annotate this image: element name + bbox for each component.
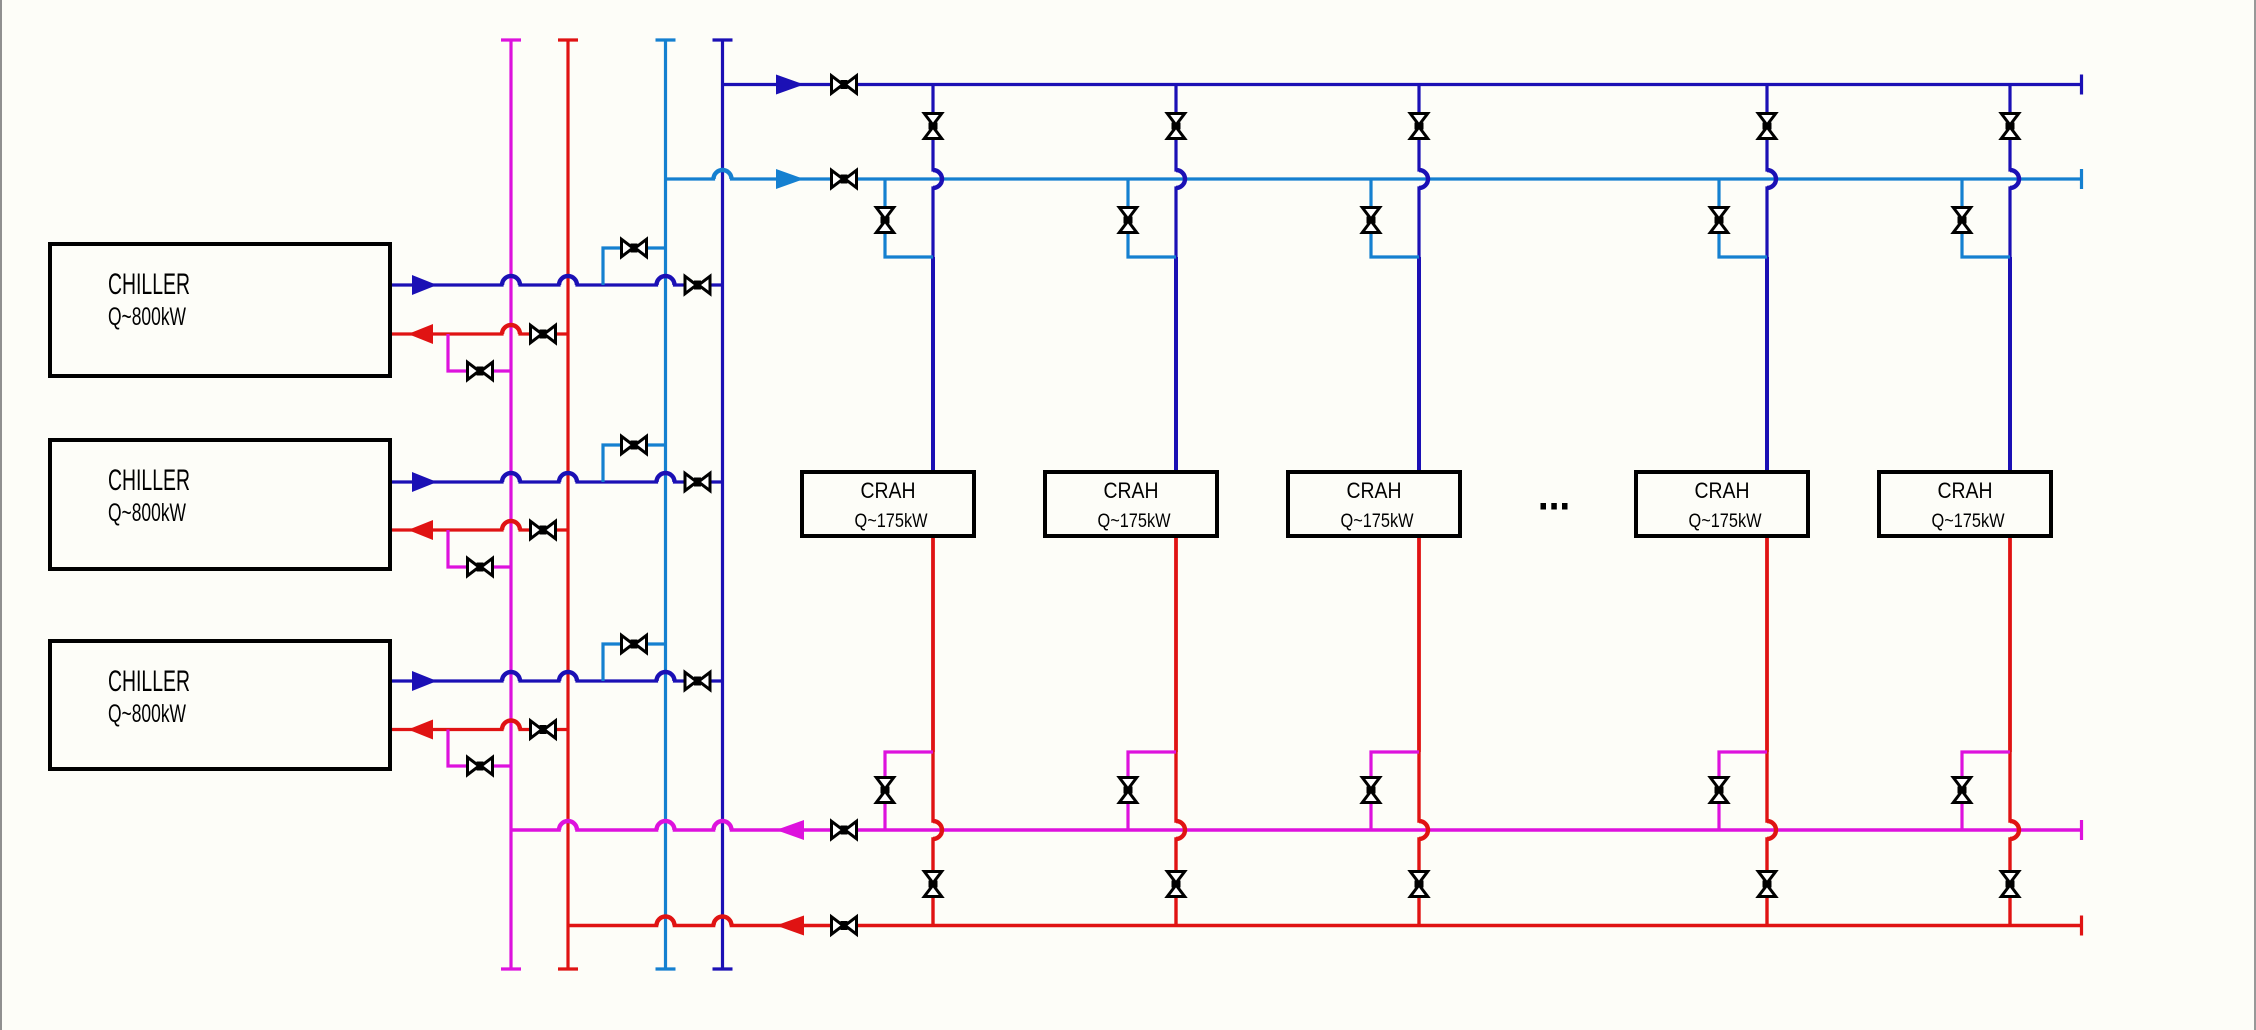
primary return riser (red) <box>566 40 569 969</box>
secondary return riser bottom cap <box>501 967 521 970</box>
chiller 3 label Q~800kW <box>108 700 186 728</box>
CRAH 2 supply drop upper (dark blue) <box>1176 85 1185 258</box>
CRAH 3 supply drop upper (dark blue) <box>1419 85 1428 258</box>
valve on primary return header <box>832 917 857 934</box>
primary supply header end cap <box>2080 75 2083 95</box>
ellipsis (more CRAH units) <box>1541 503 1568 510</box>
valve on primary supply header <box>832 76 857 93</box>
CRAH 5 label CRAH <box>1938 478 1993 503</box>
svg-text:Q~175kW: Q~175kW <box>1098 510 1171 532</box>
flow arrow on primary return header <box>776 916 804 936</box>
CRAH 1 label Q~175kW <box>855 510 928 532</box>
chiller 2 box <box>50 440 390 569</box>
primary return header end cap <box>2080 916 2083 936</box>
valve on chiller 3 crossover supply <box>622 635 647 652</box>
valve on CRAH 3 return drop <box>1410 872 1427 897</box>
CRAH 2 secondary supply branch (light blue) <box>1128 179 1176 257</box>
valve on CRAH 5 return drop <box>2001 872 2018 897</box>
CRAH 5 return drop lower (red) <box>2010 752 2019 926</box>
svg-text:CRAH: CRAH <box>1347 478 1402 503</box>
svg-text:Q~800kW: Q~800kW <box>108 303 186 331</box>
valve on secondary supply header <box>832 170 857 187</box>
CRAH 2 supply drop lower (dark blue) <box>1174 257 1178 470</box>
svg-text:CRAH: CRAH <box>1104 478 1159 503</box>
chiller 1 crossover to secondary supply (light blue) <box>603 248 666 285</box>
svg-text:Q~800kW: Q~800kW <box>108 700 186 728</box>
CRAH 1 label CRAH <box>861 478 916 503</box>
flow arrow on chiller 2 supply <box>412 472 437 492</box>
CRAH 3 secondary supply branch (light blue) <box>1371 179 1419 257</box>
valve on CRAH 4 secondary supply branch <box>1710 208 1727 233</box>
CRAH 1 return drop upper (red) <box>931 538 935 752</box>
CRAH 4 secondary supply branch (light blue) <box>1719 179 1767 257</box>
CRAH 3 return drop lower (red) <box>1419 752 1428 926</box>
primary supply riser bottom cap <box>713 967 733 970</box>
secondary return riser (magenta), top cap <box>501 38 521 41</box>
CRAH 1 secondary return branch (magenta) <box>885 752 933 830</box>
CRAH 3 label CRAH <box>1347 478 1402 503</box>
CRAH 2 return drop lower (red) <box>1176 752 1185 926</box>
valve on CRAH 5 supply drop <box>2001 114 2018 139</box>
flow arrow on chiller 1 return <box>408 324 433 344</box>
chiller 1 box <box>50 244 390 376</box>
CRAH 3 secondary return branch (magenta) <box>1371 752 1419 830</box>
svg-text:CRAH: CRAH <box>861 478 916 503</box>
valve on chiller 2 supply <box>685 473 710 490</box>
secondary return riser (magenta) <box>509 40 512 969</box>
valve on chiller 2 crossover supply <box>622 436 647 453</box>
CRAH 1 return drop lower (red) <box>933 752 942 926</box>
primary supply riser (dark blue), top cap <box>713 38 733 41</box>
valve on secondary return header <box>832 821 857 838</box>
flow arrow on chiller 1 supply <box>412 275 437 295</box>
svg-text:Q~175kW: Q~175kW <box>855 510 928 532</box>
CRAH 5 return drop upper (red) <box>2008 538 2012 752</box>
CRAH 3 label Q~175kW <box>1341 510 1414 532</box>
secondary supply riser (light blue) <box>664 40 667 969</box>
flow arrow on primary supply header <box>776 75 804 95</box>
chiller 2 crossover to secondary return (magenta) <box>448 530 511 567</box>
valve on chiller 1 supply <box>685 276 710 293</box>
CRAH 4 supply drop lower (dark blue) <box>1765 257 1769 470</box>
CRAH 4 label CRAH <box>1695 478 1750 503</box>
svg-text:Q~175kW: Q~175kW <box>1341 510 1414 532</box>
flow arrow on chiller 3 return <box>408 720 433 740</box>
primary supply header (dark blue) <box>723 83 2082 86</box>
valve on chiller 3 return <box>531 721 556 738</box>
secondary supply header end cap <box>2080 169 2083 189</box>
svg-text:CHILLER: CHILLER <box>108 464 190 497</box>
valve on CRAH 1 secondary return branch <box>876 778 893 803</box>
chiller 3 label CHILLER <box>108 665 190 698</box>
svg-text:CRAH: CRAH <box>1695 478 1750 503</box>
svg-text:CRAH: CRAH <box>1938 478 1993 503</box>
CRAH 5 secondary supply branch (light blue) <box>1962 179 2010 257</box>
valve on CRAH 5 secondary supply branch <box>1953 208 1970 233</box>
valve on CRAH 1 return drop <box>924 872 941 897</box>
svg-text:Q~175kW: Q~175kW <box>1932 510 2005 532</box>
valve on CRAH 2 return drop <box>1167 872 1184 897</box>
chiller 1 label Q~800kW <box>108 303 186 331</box>
valve on CRAH 1 supply drop <box>924 114 941 139</box>
CRAH 2 label Q~175kW <box>1098 510 1171 532</box>
CRAH 3 supply drop lower (dark blue) <box>1417 257 1421 470</box>
svg-text:CHILLER: CHILLER <box>108 665 190 698</box>
CRAH 1 supply drop upper (dark blue) <box>933 85 942 258</box>
valve on CRAH 5 secondary return branch <box>1953 778 1970 803</box>
CRAH 1 secondary supply branch (light blue) <box>885 179 933 257</box>
CRAH 5 secondary return branch (magenta) <box>1962 752 2010 830</box>
chiller 1 return pipe (red) <box>392 325 568 334</box>
chiller 3 box <box>50 641 390 769</box>
secondary supply header (light blue) <box>666 170 2082 179</box>
valve on CRAH 4 supply drop <box>1758 114 1775 139</box>
chiller 1 supply pipe (dark blue) <box>392 276 723 285</box>
valve on chiller 1 crossover return <box>468 362 493 379</box>
chiller 2 label CHILLER <box>108 464 190 497</box>
valve on CRAH 4 secondary return branch <box>1710 778 1727 803</box>
valve on chiller 2 return <box>531 521 556 538</box>
CRAH 4 secondary return branch (magenta) <box>1719 752 1767 830</box>
CRAH 4 supply drop upper (dark blue) <box>1767 85 1776 258</box>
secondary return header end cap <box>2080 820 2083 840</box>
CRAH 1 box <box>802 472 974 536</box>
chiller 2 crossover to secondary supply (light blue) <box>603 445 666 482</box>
CRAH 2 secondary return branch (magenta) <box>1128 752 1176 830</box>
valve on CRAH 4 return drop <box>1758 872 1775 897</box>
CRAH 4 return drop upper (red) <box>1765 538 1769 752</box>
CRAH 5 label Q~175kW <box>1932 510 2005 532</box>
chiller 1 label CHILLER <box>108 268 190 301</box>
CRAH 5 box <box>1879 472 2051 536</box>
chiller 2 return pipe (red) <box>392 521 568 530</box>
valve on CRAH 2 secondary supply branch <box>1119 208 1136 233</box>
valve on chiller 2 crossover return <box>468 558 493 575</box>
svg-text:CHILLER: CHILLER <box>108 268 190 301</box>
flow arrow on secondary supply header <box>776 169 804 189</box>
valve on CRAH 2 supply drop <box>1167 114 1184 139</box>
CRAH 4 label Q~175kW <box>1689 510 1762 532</box>
valve on CRAH 3 secondary supply branch <box>1362 208 1379 233</box>
flow arrow on chiller 3 supply <box>412 671 437 691</box>
valve on chiller 3 crossover return <box>468 757 493 774</box>
CRAH 5 supply drop upper (dark blue) <box>2010 85 2019 258</box>
CRAH 4 return drop lower (red) <box>1767 752 1776 926</box>
chiller 2 label Q~800kW <box>108 499 186 527</box>
flow arrow on secondary return header <box>776 820 804 840</box>
CRAH 3 return drop upper (red) <box>1417 538 1421 752</box>
secondary supply riser bottom cap <box>656 967 676 970</box>
valve on chiller 1 crossover supply <box>622 239 647 256</box>
svg-text:Q~800kW: Q~800kW <box>108 499 186 527</box>
chiller 3 supply pipe (dark blue) <box>392 672 723 681</box>
valve on CRAH 3 secondary return branch <box>1362 778 1379 803</box>
CRAH 2 box <box>1045 472 1217 536</box>
CRAH 2 label CRAH <box>1104 478 1159 503</box>
CRAH 1 supply drop lower (dark blue) <box>931 257 935 470</box>
secondary supply riser (light blue), top cap <box>656 38 676 41</box>
CRAH 2 return drop upper (red) <box>1174 538 1178 752</box>
CRAH 5 supply drop lower (dark blue) <box>2008 257 2012 470</box>
primary return header (red) <box>568 917 2082 926</box>
chiller 1 crossover to secondary return (magenta) <box>448 334 511 371</box>
valve on chiller 1 return <box>531 325 556 342</box>
chiller 3 crossover to secondary supply (light blue) <box>603 644 666 681</box>
valve on CRAH 1 secondary supply branch <box>876 208 893 233</box>
svg-text:Q~175kW: Q~175kW <box>1689 510 1762 532</box>
primary supply riser (dark blue) <box>721 40 724 969</box>
chiller 2 supply pipe (dark blue) <box>392 473 723 482</box>
flow arrow on chiller 2 return <box>408 520 433 540</box>
chiller 3 crossover to secondary return (magenta) <box>448 730 511 767</box>
CRAH 3 box <box>1288 472 1460 536</box>
CRAH 4 box <box>1636 472 1808 536</box>
primary return riser (red), top cap <box>558 38 578 41</box>
secondary return header (magenta) <box>511 821 2082 830</box>
primary return riser bottom cap <box>558 967 578 970</box>
valve on chiller 3 supply <box>685 672 710 689</box>
valve on CRAH 3 supply drop <box>1410 114 1427 139</box>
chiller 3 return pipe (red) <box>392 721 568 730</box>
valve on CRAH 2 secondary return branch <box>1119 778 1136 803</box>
